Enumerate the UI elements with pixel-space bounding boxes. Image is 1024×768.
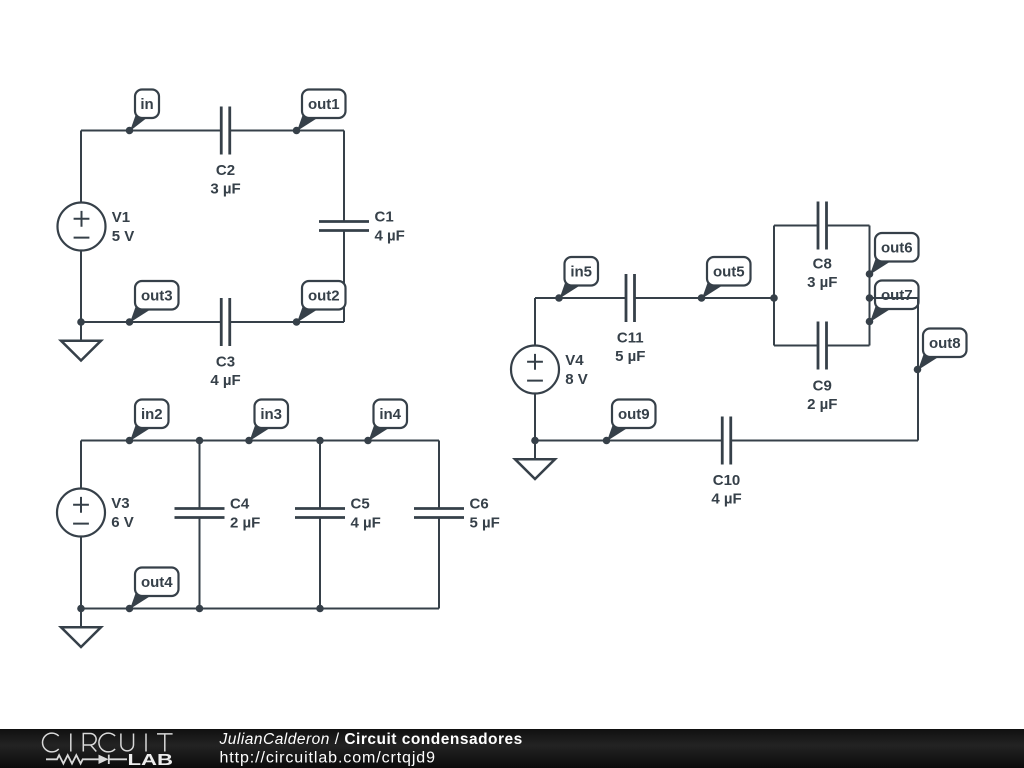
node out3: [126, 281, 179, 326]
wire left vertical to V4 plus: [534, 298, 536, 346]
wire right vertical upper: [343, 131, 345, 222]
CircuitLab logo wordmark CIRCUIT: [43, 733, 173, 752]
capacitor C4: [175, 509, 225, 518]
wire top rail right segment: [230, 130, 344, 132]
wire top rail left segment: [81, 130, 221, 132]
node out7: [866, 281, 919, 326]
capacitor C5: [295, 509, 345, 518]
wire V1 minus to bottom rail: [80, 251, 82, 322]
svg-text:in3: in3: [260, 406, 282, 423]
svg-text:C5: C5: [351, 496, 370, 513]
svg-text:C2: C2: [216, 162, 235, 179]
svg-text:C3: C3: [216, 354, 235, 371]
wire C8 top right segment: [827, 225, 870, 227]
svg-text:3 µF: 3 µF: [210, 181, 240, 198]
svg-text:5 µF: 5 µF: [615, 348, 645, 365]
svg-text:3 µF: 3 µF: [807, 274, 837, 291]
node out5: [698, 257, 751, 302]
svg-text:C11: C11: [617, 330, 644, 347]
svg-text:C6: C6: [470, 496, 489, 513]
svg-text:out6: out6: [881, 240, 913, 257]
wire top rail: [81, 440, 439, 442]
svg-text:4 µF: 4 µF: [375, 228, 405, 245]
svg-text:6 V: 6 V: [111, 514, 134, 531]
node out2: [293, 281, 346, 326]
svg-text:V3: V3: [111, 495, 129, 512]
junction right bus tee: [866, 294, 874, 302]
svg-text:2 µF: 2 µF: [807, 396, 837, 413]
node out4: [126, 568, 179, 613]
voltage source V4: [511, 346, 559, 394]
wire bottom rail: [81, 608, 439, 610]
svg-text:8 V: 8 V: [565, 371, 588, 388]
capacitor C11: [626, 274, 635, 322]
junction C4 top: [196, 437, 204, 445]
svg-text:in5: in5: [570, 264, 592, 281]
wire C5 branch upper: [319, 441, 321, 509]
capacitor C6: [414, 509, 464, 518]
svg-text:in: in: [140, 96, 153, 113]
capacitor C2: [221, 107, 230, 155]
svg-text:out9: out9: [618, 406, 650, 423]
node out6: [866, 233, 919, 278]
svg-text:out8: out8: [929, 335, 961, 352]
svg-text:http://circuitlab.com/crtqjd9: http://circuitlab.com/crtqjd9: [220, 750, 436, 767]
voltage source V1: [58, 203, 106, 251]
wire bottom rail left of C10: [535, 440, 722, 442]
junction ground tee 3: [531, 437, 539, 445]
junction main rail to left bus: [770, 294, 778, 302]
capacitor C9: [818, 322, 827, 370]
wire main rail right of C11: [635, 297, 775, 299]
junction ground tee 2: [77, 605, 85, 613]
svg-text:out3: out3: [141, 288, 173, 305]
node in5: [555, 257, 598, 302]
svg-text:4 µF: 4 µF: [210, 372, 240, 389]
wire bottom rail right of C10: [731, 440, 918, 442]
wire parallel left bus: [773, 226, 775, 346]
wire bottom rail right segment: [230, 321, 344, 323]
wire right vertical lower: [343, 231, 345, 323]
voltage source V3: [57, 489, 105, 537]
capacitor C8: [818, 202, 827, 250]
junction ground tee 1: [77, 318, 85, 326]
ground: [61, 322, 101, 361]
node out1: [293, 90, 346, 135]
node in2: [126, 400, 169, 445]
svg-text:5 µF: 5 µF: [470, 515, 500, 532]
capacitor C1: [319, 222, 369, 231]
wire left vertical to V3 plus: [80, 441, 82, 489]
svg-text:C1: C1: [375, 209, 394, 226]
svg-text:out4: out4: [141, 574, 173, 591]
wire C9 bottom right segment: [827, 345, 870, 347]
junction C5 top: [316, 437, 324, 445]
ground: [61, 609, 101, 648]
svg-text:in2: in2: [141, 406, 163, 423]
svg-text:out7: out7: [881, 287, 913, 304]
wire V3 minus to bottom rail: [80, 537, 82, 609]
svg-text:out2: out2: [308, 288, 340, 305]
svg-text:JulianCalderon / Circuit conde: JulianCalderon / Circuit condensadores: [219, 731, 523, 748]
svg-text:4 µF: 4 µF: [351, 515, 381, 532]
svg-text:C4: C4: [230, 496, 250, 513]
svg-text:5 V: 5 V: [112, 228, 135, 245]
node out8: [914, 329, 967, 374]
CircuitLab logo resistor and diode symbol: [46, 755, 127, 764]
svg-text:V4: V4: [565, 352, 584, 369]
svg-text:out5: out5: [713, 264, 745, 281]
node in4: [364, 400, 407, 445]
junction C4 bottom: [196, 605, 204, 613]
wire C5 branch lower: [319, 518, 321, 609]
svg-text:2 µF: 2 µF: [230, 515, 260, 532]
svg-text:C8: C8: [813, 256, 832, 273]
capacitor C3: [221, 298, 230, 346]
wire bottom rail left segment: [81, 321, 221, 323]
svg-text:C9: C9: [813, 378, 832, 395]
svg-text:LAB: LAB: [128, 752, 174, 768]
node in: [126, 90, 159, 135]
wire main rail left of C11: [535, 297, 626, 299]
svg-text:C10: C10: [713, 472, 741, 489]
wire parallel right bus: [869, 226, 871, 346]
svg-text:in4: in4: [379, 406, 401, 423]
wire C4 branch lower: [199, 518, 201, 609]
wire C9 bottom left segment: [774, 345, 818, 347]
node out9: [603, 400, 656, 445]
wire C8 top left segment: [774, 225, 818, 227]
svg-text:out1: out1: [308, 96, 340, 113]
capacitor C10: [722, 417, 731, 465]
svg-text:V1: V1: [112, 209, 130, 226]
wire C6 branch upper: [438, 441, 440, 509]
ground: [515, 441, 555, 480]
node in3: [245, 400, 288, 445]
svg-text:4 µF: 4 µF: [711, 491, 741, 508]
wire left vertical to V1 plus: [80, 131, 82, 203]
wire right bus to out8 drop: [870, 298, 919, 441]
wire C6 branch lower: [438, 518, 440, 609]
wire C4 branch upper: [199, 441, 201, 509]
junction C5 bottom: [316, 605, 324, 613]
wire V4 minus to bottom rail: [534, 394, 536, 441]
